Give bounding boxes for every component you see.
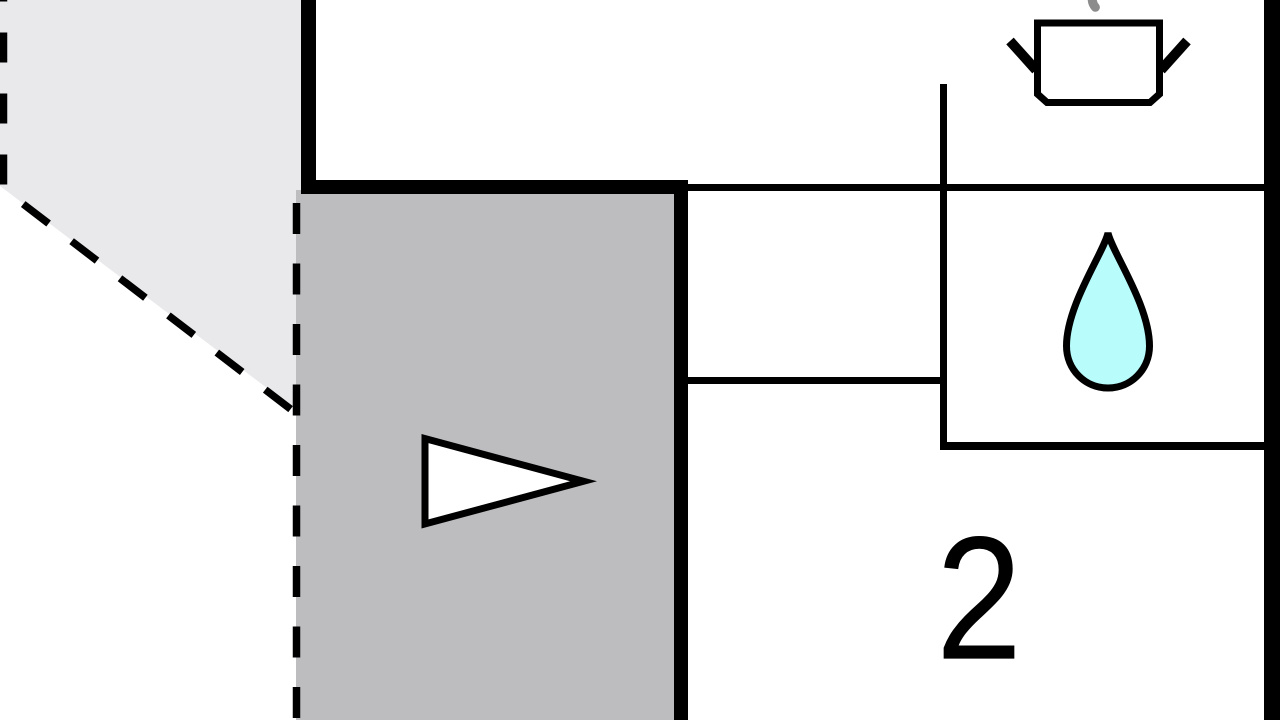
svg-text:2: 2 xyxy=(936,501,1022,697)
